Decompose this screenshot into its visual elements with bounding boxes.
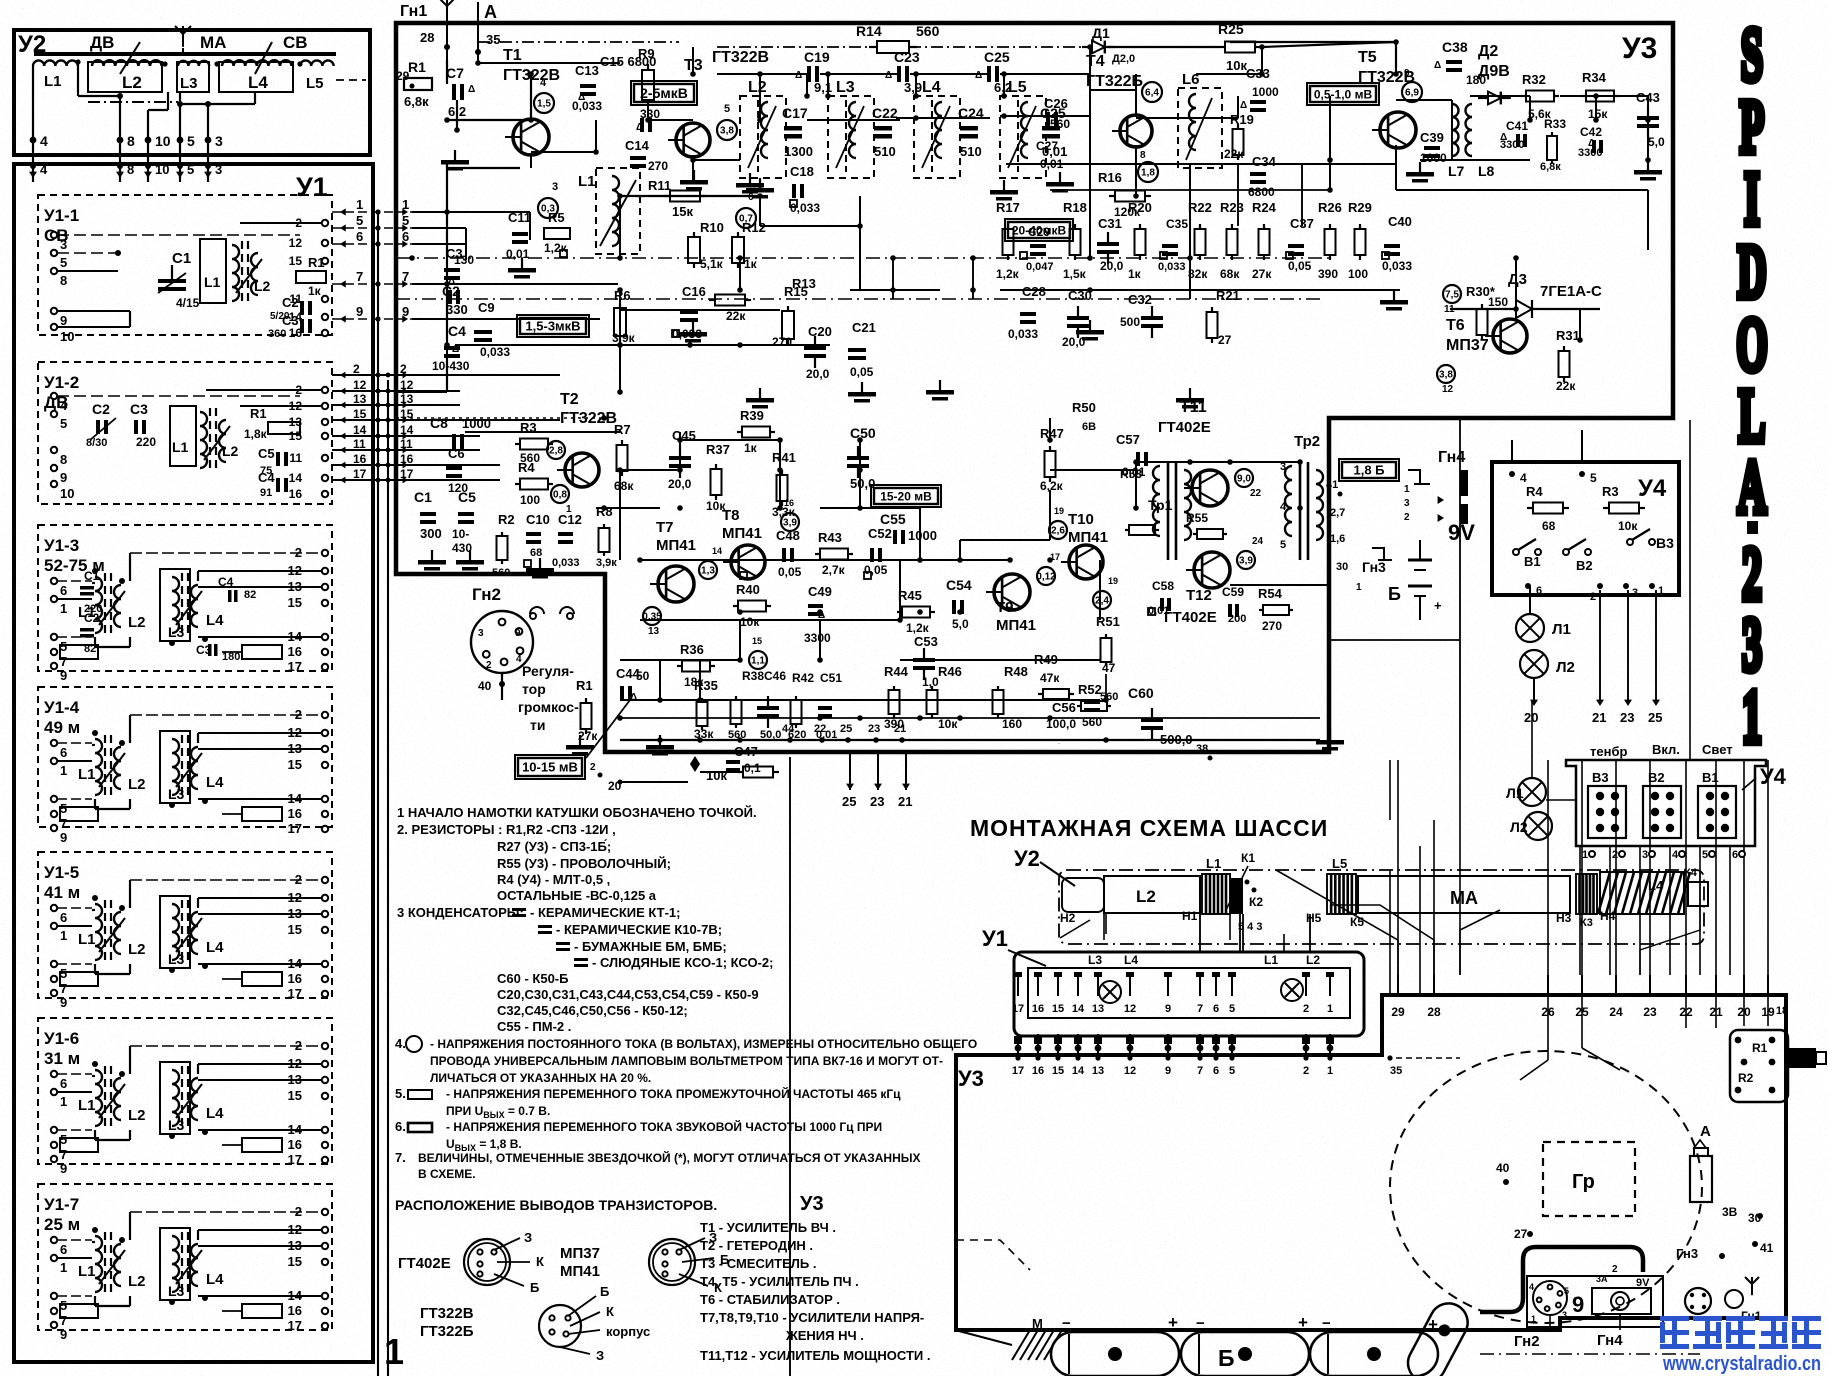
svg-text:C2: C2 (92, 401, 110, 417)
svg-text:10: 10 (155, 133, 171, 149)
svg-text:Δ: Δ (795, 70, 802, 81)
svg-text:22к: 22к (1224, 147, 1244, 161)
svg-text:1: 1 (1531, 1314, 1536, 1324)
svg-text:Т3 - СМЕСИТЕЛЬ .: Т3 - СМЕСИТЕЛЬ . (700, 1256, 816, 1271)
svg-text:41: 41 (1326, 479, 1338, 491)
svg-text:130: 130 (454, 253, 474, 267)
svg-text:В2: В2 (1576, 558, 1593, 573)
svg-text:17: 17 (288, 986, 302, 1001)
svg-text:3: 3 (1632, 587, 1638, 599)
svg-text:24: 24 (1609, 1005, 1623, 1019)
svg-text:180: 180 (222, 651, 240, 663)
svg-text:R1: R1 (1752, 1041, 1768, 1055)
svg-text:330: 330 (446, 302, 468, 317)
svg-text:15: 15 (288, 922, 302, 937)
svg-text:2-5мкВ: 2-5мкВ (640, 85, 688, 101)
svg-text:10-15 мВ: 10-15 мВ (522, 760, 578, 775)
svg-text:L2: L2 (128, 1107, 146, 1124)
svg-text:C3: C3 (130, 401, 148, 417)
svg-text:R1: R1 (408, 59, 426, 75)
svg-text:14: 14 (289, 310, 303, 324)
svg-text:тенбр: тенбр (1590, 744, 1627, 759)
svg-text:270: 270 (1262, 619, 1282, 633)
svg-text:1: 1 (60, 928, 67, 943)
svg-text:5: 5 (60, 1132, 67, 1147)
svg-text:С57: С57 (1116, 432, 1140, 447)
svg-text:С28: С28 (1022, 284, 1046, 299)
svg-text:13: 13 (1092, 1003, 1104, 1015)
svg-text:R38: R38 (742, 669, 764, 683)
svg-text:С32: С32 (1128, 292, 1152, 307)
svg-text:6: 6 (60, 1076, 67, 1091)
svg-text:В3: В3 (1656, 535, 1674, 551)
svg-text:2,8: 2,8 (549, 446, 563, 457)
svg-text:0,033: 0,033 (790, 201, 820, 215)
svg-text:5: 5 (1564, 1286, 1569, 1296)
svg-text:L4: L4 (248, 73, 268, 92)
svg-text:тор: тор (522, 681, 546, 697)
svg-text:16: 16 (288, 971, 302, 986)
svg-text:С51: С51 (820, 671, 842, 685)
svg-text:Т4, Т5 - УСИЛИТЕЛЬ ПЧ .: Т4, Т5 - УСИЛИТЕЛЬ ПЧ . (700, 1274, 859, 1289)
svg-text:5: 5 (1229, 1065, 1235, 1077)
svg-text:МА: МА (1450, 888, 1478, 908)
svg-text:68к: 68к (1220, 267, 1240, 281)
svg-text:2: 2 (1404, 512, 1410, 523)
svg-text:7,5: 7,5 (1445, 290, 1459, 301)
svg-text:Т8: Т8 (722, 507, 740, 524)
svg-text:150: 150 (1488, 295, 1508, 309)
svg-text:1: 1 (1356, 582, 1362, 593)
svg-text:С46: С46 (764, 669, 786, 683)
svg-text:2: 2 (353, 362, 360, 376)
svg-text:17: 17 (353, 467, 367, 481)
svg-text:15: 15 (288, 757, 302, 772)
svg-text:L3: L3 (836, 79, 855, 96)
svg-text:−: − (1322, 1315, 1331, 1332)
svg-text:У3: У3 (800, 1193, 824, 1215)
svg-text:4: 4 (1520, 471, 1527, 485)
svg-text:13: 13 (1092, 1065, 1104, 1077)
svg-text:Регуля-: Регуля- (522, 663, 574, 679)
svg-text:15: 15 (289, 429, 303, 443)
svg-text:0,7: 0,7 (739, 214, 753, 225)
svg-text:2: 2 (1612, 1264, 1618, 1275)
svg-text:25 м: 25 м (44, 1215, 80, 1234)
svg-text:R7: R7 (614, 422, 631, 437)
svg-text:С59: С59 (1222, 585, 1244, 599)
svg-text:20,0: 20,0 (806, 367, 830, 381)
svg-text:L2: L2 (128, 1273, 146, 1290)
svg-text:3,9: 3,9 (904, 80, 922, 95)
svg-text:Т12: Т12 (1186, 587, 1212, 604)
svg-text:2: 2 (400, 362, 407, 376)
svg-text:28: 28 (420, 30, 434, 45)
svg-text:100: 100 (520, 493, 540, 507)
svg-text:В2: В2 (1648, 770, 1665, 785)
svg-text:44: 44 (782, 723, 795, 735)
svg-text:R31: R31 (1556, 328, 1580, 343)
svg-text:16: 16 (400, 452, 414, 466)
svg-text:R26: R26 (1318, 200, 1342, 215)
svg-text:2. РЕЗИСТОРЫ : R1,R2 -СП3 -12И: 2. РЕЗИСТОРЫ : R1,R2 -СП3 -12И , (397, 822, 616, 837)
svg-text:12: 12 (1124, 1003, 1136, 1015)
svg-text:У1-6: У1-6 (44, 1029, 79, 1048)
svg-text:МП41: МП41 (560, 1263, 600, 1280)
svg-text:1,2к: 1,2к (544, 241, 568, 255)
svg-text:22к: 22к (1556, 379, 1576, 393)
svg-text:68к: 68к (614, 479, 634, 493)
svg-text:1300: 1300 (784, 144, 813, 159)
svg-text:5: 5 (60, 255, 67, 270)
svg-text:23: 23 (1620, 710, 1634, 725)
svg-text:500: 500 (1120, 315, 1140, 329)
svg-text:R4 (У4) - МЛТ-0,5 ,: R4 (У4) - МЛТ-0,5 , (497, 872, 610, 887)
svg-text:С23: С23 (894, 49, 920, 65)
svg-text:L5: L5 (1332, 856, 1347, 871)
svg-text:R34: R34 (1582, 70, 1607, 85)
svg-text:18: 18 (1776, 1005, 1788, 1017)
svg-text:R2: R2 (498, 512, 515, 527)
svg-text:Л1: Л1 (1506, 785, 1524, 801)
svg-text:С9: С9 (478, 300, 495, 315)
svg-text:С25: С25 (984, 49, 1010, 65)
svg-text:0,033: 0,033 (552, 557, 580, 569)
svg-text:5: 5 (187, 133, 195, 149)
svg-text:22к: 22к (726, 309, 746, 323)
svg-text:С1: С1 (414, 489, 432, 505)
svg-text:Л1: Л1 (1552, 621, 1571, 638)
svg-text:R55 (У3) - ПРОВОЛОЧНЫЙ;: R55 (У3) - ПРОВОЛОЧНЫЙ; (497, 856, 671, 871)
svg-text:R55: R55 (1186, 511, 1208, 525)
svg-text:13: 13 (289, 415, 303, 429)
svg-text:L1: L1 (78, 931, 96, 948)
svg-text:R2: R2 (1738, 1071, 1754, 1085)
svg-text:Т7: Т7 (656, 519, 674, 536)
svg-text:R17: R17 (996, 200, 1020, 215)
svg-text:22: 22 (814, 723, 826, 735)
svg-text:16: 16 (353, 452, 367, 466)
svg-text:L2: L2 (1306, 953, 1320, 967)
svg-text:22: 22 (1250, 488, 1262, 499)
svg-text:С19: С19 (804, 49, 830, 65)
svg-text:15: 15 (752, 636, 762, 646)
svg-text:C1: C1 (172, 250, 191, 267)
svg-text:Т2 - ГЕТЕРОДИН .: Т2 - ГЕТЕРОДИН . (700, 1238, 813, 1253)
svg-text:5,0: 5,0 (1648, 135, 1665, 149)
svg-text:1: 1 (356, 197, 363, 212)
svg-text:1,5к: 1,5к (1063, 267, 1087, 281)
svg-text:30: 30 (1336, 561, 1348, 573)
svg-text:МП41: МП41 (996, 617, 1036, 634)
svg-text:5,1к: 5,1к (700, 257, 724, 271)
svg-text:L1: L1 (172, 439, 189, 455)
svg-text:С60 - К50-Б: С60 - К50-Б (497, 971, 568, 986)
svg-text:0,1: 0,1 (744, 761, 761, 775)
svg-text:R41: R41 (772, 450, 796, 465)
svg-text:27: 27 (1218, 333, 1232, 347)
svg-text:1,8к: 1,8к (244, 427, 268, 441)
svg-text:3А: 3А (1596, 1274, 1608, 1284)
svg-text:2,4: 2,4 (1095, 596, 1109, 607)
svg-text:2: 2 (1303, 1065, 1309, 1077)
svg-text:R24: R24 (1252, 200, 1277, 215)
svg-text:С21: С21 (852, 320, 876, 335)
svg-text:L2: L2 (128, 941, 146, 958)
svg-text:10-: 10- (452, 527, 469, 541)
svg-text:Т5: Т5 (1358, 49, 1377, 66)
svg-text:9,1: 9,1 (814, 80, 832, 95)
svg-text:9: 9 (60, 995, 67, 1010)
svg-text:С32,С45,С46,С50,С56 - К50-12;: С32,С45,С46,С50,С56 - К50-12; (497, 1003, 688, 1018)
svg-text:19: 19 (1108, 576, 1118, 586)
svg-text:0,033: 0,033 (1008, 327, 1038, 341)
svg-text:R19: R19 (1230, 112, 1254, 127)
svg-text:500,0: 500,0 (1160, 732, 1193, 747)
svg-text:560: 560 (1082, 715, 1102, 729)
svg-text:С38: С38 (1442, 39, 1468, 55)
svg-text:С39: С39 (1420, 130, 1444, 145)
svg-text:С26: С26 (1044, 96, 1068, 111)
svg-text:R52: R52 (1078, 682, 1102, 697)
svg-text:11: 11 (289, 451, 302, 465)
svg-text:360: 360 (268, 328, 286, 340)
svg-text:5: 5 (1702, 849, 1708, 861)
svg-text:6800: 6800 (1248, 185, 1275, 199)
svg-text:L3: L3 (1088, 953, 1102, 967)
svg-text:R27 (У3) - СП3-1Б́;: R27 (У3) - СП3-1Б́; (497, 839, 611, 854)
svg-text:ДВ: ДВ (90, 33, 114, 52)
svg-text:С47: С47 (734, 744, 758, 759)
svg-text:К1: К1 (1241, 851, 1255, 865)
svg-text:3: 3 (1404, 498, 1410, 509)
svg-text:Д9В: Д9В (1478, 63, 1510, 80)
svg-text:У2: У2 (1014, 846, 1040, 871)
svg-text:14: 14 (400, 423, 414, 437)
svg-text:82к: 82к (1188, 267, 1208, 281)
svg-text:ЛИЧАТЬСЯ ОТ УКАЗАННЫХ НА 20 %.: ЛИЧАТЬСЯ ОТ УКАЗАННЫХ НА 20 %. (430, 1071, 651, 1085)
svg-text:L1: L1 (78, 1097, 96, 1114)
svg-text:L8: L8 (1478, 163, 1495, 179)
svg-text:Д1: Д1 (1092, 25, 1110, 41)
svg-text:10: 10 (60, 486, 74, 501)
svg-text:9: 9 (60, 1327, 67, 1342)
svg-text:10: 10 (60, 329, 74, 344)
svg-text:+: + (1298, 1313, 1308, 1332)
svg-text:82: 82 (244, 589, 256, 601)
svg-text:1,1: 1,1 (751, 656, 765, 667)
svg-text:14: 14 (353, 423, 367, 437)
svg-text:8: 8 (60, 452, 67, 467)
svg-text:D: D (1737, 231, 1766, 315)
svg-text:1к: 1к (744, 257, 758, 271)
svg-text:17: 17 (1012, 1065, 1024, 1077)
svg-text:С5: С5 (458, 489, 476, 505)
svg-text:31 м: 31 м (44, 1049, 80, 1068)
svg-text:Δ: Δ (578, 92, 585, 103)
svg-text:21: 21 (894, 723, 906, 735)
svg-text:10к: 10к (706, 768, 727, 783)
svg-text:В1: В1 (1702, 770, 1719, 785)
svg-text:47: 47 (1102, 661, 1116, 675)
svg-text:ГТ322В: ГТ322В (560, 410, 617, 427)
svg-text:С20: С20 (808, 324, 832, 339)
svg-text:ЖЕНИЯ НЧ .: ЖЕНИЯ НЧ . (785, 1328, 864, 1343)
svg-text:−: − (1196, 1315, 1205, 1332)
svg-text:С10: С10 (526, 512, 550, 527)
svg-text:R35: R35 (694, 678, 718, 693)
svg-text:С18: С18 (790, 164, 814, 179)
svg-text:C4: C4 (258, 470, 275, 485)
svg-text:Δ: Δ (1434, 60, 1441, 71)
svg-text:L2: L2 (128, 614, 146, 631)
svg-text:МП37: МП37 (1446, 337, 1489, 354)
svg-text:12: 12 (1442, 384, 1454, 395)
svg-text:21: 21 (1592, 710, 1606, 725)
svg-text:6: 6 (60, 745, 67, 760)
svg-text:Т7,Т8,Т9,Т10 - УСИЛИТЕЛИ НАПР: Т7,Т8,Т9,Т10 - УСИЛИТЕЛИ НАПРЯ- (700, 1310, 924, 1325)
svg-text:7.: 7. (395, 1150, 406, 1165)
svg-text:6: 6 (1213, 1003, 1219, 1015)
svg-text:17: 17 (288, 1152, 302, 1167)
svg-text:6,8к: 6,8к (404, 94, 429, 109)
svg-text:8: 8 (127, 133, 135, 149)
svg-text:6: 6 (1536, 585, 1542, 597)
svg-text:2: 2 (1303, 1003, 1309, 1015)
svg-text:560: 560 (916, 23, 940, 39)
svg-text:R25: R25 (1218, 21, 1244, 37)
svg-text:R1: R1 (576, 678, 593, 693)
svg-text:14: 14 (289, 471, 303, 485)
svg-text:1: 1 (1404, 484, 1410, 495)
svg-text:ГТ402Е: ГТ402Е (1158, 419, 1211, 436)
svg-text:15: 15 (353, 407, 367, 421)
svg-text:14: 14 (1072, 1003, 1085, 1015)
svg-text:4: 4 (1280, 501, 1287, 513)
svg-text:12: 12 (353, 378, 367, 392)
svg-text:В СХЕМЕ.: В СХЕМЕ. (418, 1167, 476, 1181)
svg-text:17: 17 (288, 1318, 302, 1333)
svg-text:L4: L4 (206, 612, 224, 629)
svg-text:R46: R46 (938, 664, 962, 679)
svg-text:82: 82 (84, 643, 96, 655)
svg-text:R14: R14 (856, 23, 882, 39)
svg-text:1,5-3мкВ: 1,5-3мкВ (525, 319, 580, 334)
svg-text:С31: С31 (1098, 216, 1122, 231)
svg-text:17: 17 (288, 659, 302, 674)
svg-text:2,7к: 2,7к (822, 563, 846, 577)
svg-text:5: 5 (1229, 1003, 1235, 1015)
svg-text:14: 14 (712, 546, 722, 556)
svg-text:L3: L3 (168, 1117, 185, 1133)
svg-text:R20: R20 (1128, 200, 1152, 215)
svg-text:L3: L3 (168, 951, 185, 967)
svg-text:L1: L1 (78, 766, 96, 783)
svg-text:15: 15 (1052, 1003, 1064, 1015)
svg-text:Н4: Н4 (1600, 909, 1616, 923)
svg-text:- КЕРАМИЧЕСКИЕ КТ-1;: - КЕРАМИЧЕСКИЕ КТ-1; (530, 905, 680, 920)
svg-text:L4: L4 (922, 79, 941, 96)
svg-text:6,8к: 6,8к (1540, 161, 1561, 173)
svg-text:L1: L1 (78, 1263, 96, 1280)
svg-text:68: 68 (1542, 519, 1556, 533)
svg-text:R32: R32 (1522, 72, 1546, 87)
svg-text:R33: R33 (1544, 117, 1566, 131)
svg-text:ГТ322Б: ГТ322Б (1086, 73, 1143, 90)
svg-text:3В: 3В (1722, 1205, 1738, 1219)
svg-text:9: 9 (60, 470, 67, 485)
svg-text:4: 4 (40, 133, 48, 149)
svg-text:7: 7 (60, 654, 67, 669)
svg-text:3,8: 3,8 (1439, 370, 1453, 381)
svg-text:3,9к: 3,9к (596, 557, 617, 569)
svg-text:Δ: Δ (630, 692, 637, 703)
svg-text:40: 40 (478, 679, 492, 693)
svg-text:6В: 6В (1082, 421, 1096, 433)
svg-text:16: 16 (1032, 1065, 1044, 1077)
svg-text:Т11,Т12 - УСИЛИТЕЛЬ МОЩНОСТИ: Т11,Т12 - УСИЛИТЕЛЬ МОЩНОСТИ . (700, 1348, 930, 1363)
svg-text:С29: С29 (1028, 225, 1050, 239)
svg-text:17: 17 (400, 467, 414, 481)
svg-text:0,033: 0,033 (480, 345, 510, 359)
svg-text:Т10: Т10 (1068, 511, 1094, 528)
svg-text:ПРОВОДА УНИВЕРСАЛЬНЫМ ЛАМПОВЫМ: ПРОВОДА УНИВЕРСАЛЬНЫМ ЛАМПОВЫМ ВОЛЬТМЕТР… (430, 1054, 943, 1068)
svg-text:16: 16 (288, 644, 302, 659)
svg-text:Δ: Δ (818, 610, 825, 621)
svg-text:5: 5 (356, 213, 363, 228)
svg-text:Т6 - СТАБИЛИЗАТОР .: Т6 - СТАБИЛИЗАТОР . (700, 1292, 840, 1307)
svg-text:ГТ322Б: ГТ322Б (420, 1323, 474, 1340)
svg-text:ВЕЛИЧИНЫ, ОТМЕЧЕННЫЕ ЗВЕЗДОЧКО: ВЕЛИЧИНЫ, ОТМЕЧЕННЫЕ ЗВЕЗДОЧКОЙ (*), МОГ… (418, 1150, 921, 1165)
svg-text:Δ: Δ (1500, 132, 1507, 143)
svg-text:0,8: 0,8 (553, 490, 567, 501)
svg-text:М: М (1032, 1316, 1043, 1331)
svg-text:6: 6 (356, 229, 363, 244)
svg-text:С4: С4 (448, 323, 466, 339)
svg-text:Гр: Гр (1572, 1171, 1595, 1193)
svg-text:25: 25 (842, 794, 856, 809)
svg-text:9: 9 (402, 304, 409, 319)
svg-text:Δ: Δ (975, 70, 982, 81)
svg-text:Д3: Д3 (1508, 271, 1527, 288)
svg-text:16: 16 (289, 326, 303, 340)
svg-text:1к: 1к (1128, 267, 1142, 281)
svg-text:R50: R50 (1072, 400, 1096, 415)
svg-text:10к: 10к (1618, 519, 1638, 533)
svg-text:С7: С7 (446, 65, 464, 81)
svg-text:+: + (1168, 1313, 1178, 1332)
svg-text:27: 27 (1514, 1227, 1528, 1241)
svg-text:390: 390 (1318, 267, 1338, 281)
svg-text:6: 6 (1732, 849, 1738, 861)
svg-text:510: 510 (960, 144, 982, 159)
svg-text:- КЕРАМИЧЕСКИЕ К10-7В;: - КЕРАМИЧЕСКИЕ К10-7В; (556, 922, 722, 937)
svg-text:Б: Б (1218, 1345, 1235, 1371)
svg-text:Δ: Δ (468, 84, 475, 95)
svg-text:2,7: 2,7 (1330, 507, 1345, 519)
svg-text:R10: R10 (700, 220, 724, 235)
svg-text:L1: L1 (578, 173, 596, 190)
svg-text:Δ: Δ (452, 344, 459, 355)
svg-text:L4: L4 (1124, 953, 1138, 967)
svg-text:1: 1 (384, 1331, 404, 1372)
svg-text:К: К (606, 1304, 614, 1319)
svg-text:12: 12 (400, 378, 414, 392)
svg-text:У1-4: У1-4 (44, 698, 80, 717)
svg-text:Гн3: Гн3 (1362, 559, 1386, 575)
svg-text:15: 15 (289, 254, 303, 268)
svg-text:I: I (1744, 158, 1760, 242)
